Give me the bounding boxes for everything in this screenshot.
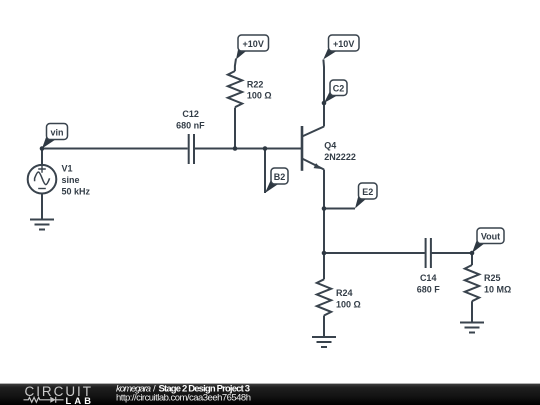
wire R24 to ground (323, 316, 325, 338)
label V1 value (62, 164, 91, 197)
svg-text:Vout: Vout (481, 231, 500, 241)
svg-text:sine: sine (62, 175, 80, 185)
svg-text:vin: vin (50, 127, 63, 137)
wire C14 to Vout node (431, 252, 472, 254)
node C2 junction (322, 101, 327, 106)
logo resistor-diode squiggle (24, 397, 64, 403)
wire C12 to Q4 base (195, 148, 301, 150)
label C12 value (176, 109, 205, 130)
capacitor C12 (189, 134, 194, 164)
label Q4 value (324, 140, 356, 161)
flag E2 (355, 183, 377, 209)
wire +10V flag to R22 (235, 59, 236, 72)
svg-text:2N2222: 2N2222 (324, 152, 356, 162)
ground (R24) (312, 337, 336, 347)
ground (R25) (460, 323, 484, 333)
svg-text:LAB: LAB (66, 396, 92, 405)
ground (V1) (30, 220, 54, 230)
svg-text:100 Ω: 100 Ω (336, 299, 361, 309)
resistor R25 (465, 265, 479, 301)
label R22 value (247, 79, 272, 100)
node R22 junction (233, 146, 238, 151)
svg-text:V1: V1 (62, 164, 73, 174)
node E2 junction (322, 206, 327, 211)
svg-text:R24: R24 (336, 288, 353, 298)
svg-text:http://circuitlab.com/caa3eeh7: http://circuitlab.com/caa3eeh76548h (116, 392, 251, 403)
svg-text:Q4: Q4 (324, 140, 336, 150)
wire vin node to C12 (42, 148, 188, 150)
label C14 value (417, 273, 441, 294)
svg-text:680 F: 680 F (417, 284, 441, 294)
svg-text:C14: C14 (420, 273, 437, 283)
wire vin node to V1 top (41, 149, 43, 166)
svg-text:+10V: +10V (333, 39, 354, 49)
svg-text:+10V: +10V (243, 39, 264, 49)
wire V1 bottom to ground (41, 194, 43, 220)
wire R25 top lead (471, 253, 473, 265)
voltage source V1 (28, 165, 57, 194)
svg-text:50 kHz: 50 kHz (62, 187, 91, 197)
wire R25 to ground (471, 301, 473, 322)
resistor R24 (317, 279, 331, 315)
wire emitter node to C14 (324, 252, 425, 254)
node Vout junction (470, 251, 475, 256)
transistor Q4 (302, 126, 324, 171)
flag Vout (472, 228, 504, 253)
resistor R22 (228, 71, 242, 107)
svg-text:B2: B2 (274, 172, 286, 182)
svg-text:C12: C12 (182, 109, 199, 119)
label R25 value (484, 273, 511, 294)
wire +10V flag to Q4 collector (322, 60, 325, 127)
node vin junction (40, 146, 45, 151)
svg-text:10 MΩ: 10 MΩ (484, 284, 511, 294)
wire Q4 emitter down through nodes to R24 (323, 170, 325, 280)
svg-text:E2: E2 (362, 187, 373, 197)
svg-text:100 Ω: 100 Ω (247, 91, 272, 101)
flag vin (42, 124, 68, 149)
flag C2 (324, 80, 347, 103)
wire node to R22 (234, 108, 236, 149)
wire node E2 stub (324, 208, 355, 210)
flag +10V (Q4 collector) (323, 35, 359, 60)
svg-text:R25: R25 (484, 273, 501, 283)
label R24 value (336, 288, 361, 309)
flag +10V (R22) (236, 35, 269, 60)
node B2 junction (263, 146, 268, 151)
flag B2 (265, 168, 288, 193)
svg-text:R22: R22 (247, 79, 264, 89)
footer bar (0, 384, 540, 405)
capacitor C14 (426, 238, 431, 268)
node emitter output junction (322, 251, 327, 256)
svg-text:C2: C2 (333, 83, 345, 93)
wire node to B2 flag (264, 149, 266, 194)
svg-text:680 nF: 680 nF (176, 120, 205, 130)
